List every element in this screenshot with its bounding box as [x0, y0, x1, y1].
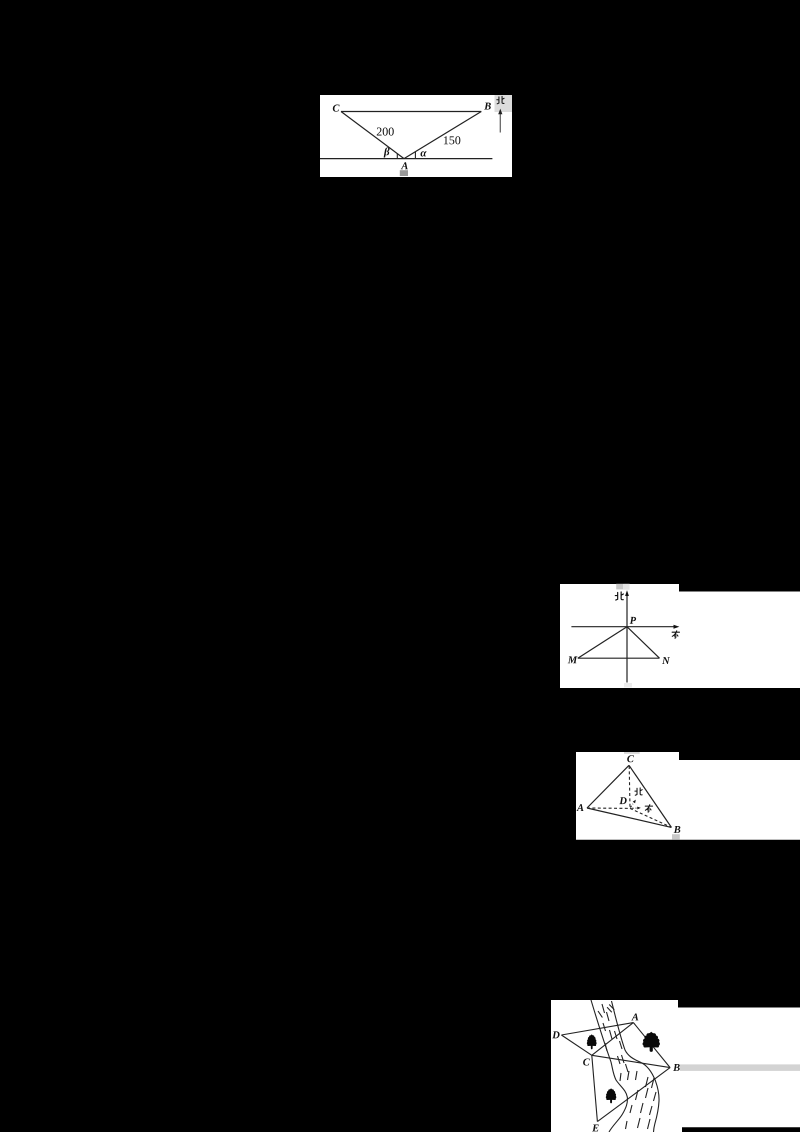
dashed line D-B d3 — [630, 808, 671, 827]
gray square below B d3 — [672, 834, 680, 839]
north axis d2 — [625, 590, 629, 682]
line P-N d2 — [627, 627, 660, 659]
gray highlight block behind bei d1 — [495, 95, 513, 112]
alpha angle arc d1 — [414, 152, 416, 159]
label 150 d1 — [444, 136, 460, 144]
white panel d4 — [551, 1000, 800, 1132]
label A d1 — [401, 162, 408, 169]
label bei (north) d2 — [615, 592, 623, 600]
east axis d2 — [571, 625, 679, 629]
dashed line A-D d3 — [587, 807, 630, 809]
line C-A d4 — [592, 1023, 634, 1056]
dashed line C-D d3 — [628, 766, 631, 808]
line A-B d3 — [587, 808, 671, 827]
tree 2 d4 — [643, 1032, 660, 1052]
line A-B d1 — [404, 112, 481, 159]
label N d2 — [662, 657, 670, 664]
label P d2 — [630, 617, 636, 624]
gray square bottom d2 — [624, 683, 632, 687]
line D-C d4 — [561, 1035, 591, 1055]
line D-A d4 — [561, 1023, 633, 1035]
label B d4 — [673, 1064, 680, 1071]
gray sliver top d3 — [624, 752, 640, 754]
label M d2 — [568, 656, 578, 663]
compass east arrow d3 — [632, 807, 641, 810]
river left bank d4 — [591, 1000, 627, 1132]
tree 3 d4 — [606, 1088, 617, 1103]
label C d3 — [627, 755, 634, 762]
gray square below A d1 — [400, 170, 408, 176]
line A-B d4 — [633, 1023, 670, 1068]
label dong (east) d2 — [672, 631, 679, 638]
label 200 d1 — [377, 128, 394, 136]
label D d4 — [552, 1031, 559, 1038]
north arrow d1 — [498, 109, 502, 133]
compass north arrow d3 — [630, 800, 636, 808]
line C-B d4 — [592, 1055, 670, 1067]
tree 1 d4 — [587, 1034, 597, 1049]
line M-N d2 — [578, 657, 660, 659]
label A d4 — [631, 1013, 638, 1020]
line C-B d3 — [629, 765, 671, 827]
angle beta label d1 — [384, 147, 390, 157]
line P-M d2 — [578, 627, 627, 659]
white panel d3 — [576, 752, 800, 840]
label bei (north) d1 — [497, 96, 504, 103]
gray block top d2 — [616, 584, 623, 590]
label bei (north) d3 — [635, 788, 642, 795]
label C d1 — [333, 105, 340, 112]
beta angle arc d1 — [396, 154, 398, 159]
label B d1 — [484, 103, 491, 110]
line A-C d3 — [587, 765, 629, 808]
angle alpha label d1 — [421, 151, 427, 156]
label dong (east) d3 — [645, 805, 652, 812]
label C d4 — [583, 1058, 590, 1065]
river right bank d4 — [612, 1001, 660, 1132]
line A-C d1 — [341, 112, 404, 159]
white panel d1 — [320, 95, 512, 177]
label D d3 — [619, 797, 626, 804]
line C-E d4 — [592, 1055, 598, 1121]
label E d4 — [592, 1125, 599, 1132]
river hatch marks d4 — [598, 1004, 656, 1129]
line E-B d4 — [597, 1068, 670, 1122]
line C-B d1 — [341, 111, 481, 113]
gray bar right d4 — [680, 1064, 800, 1071]
white panel d2 — [560, 584, 800, 688]
ground baseline d1 — [320, 158, 492, 160]
label B d3 — [674, 826, 681, 833]
label A d3 — [576, 804, 583, 811]
